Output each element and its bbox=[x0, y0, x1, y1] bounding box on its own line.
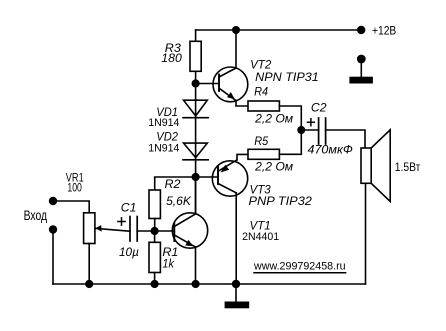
wire: VD2 to node B bbox=[195, 160, 197, 177]
capacitor C1 (10µ) bbox=[130, 217, 137, 242]
svg-text:2N4401: 2N4401 bbox=[242, 231, 279, 243]
svg-text:R2: R2 bbox=[165, 177, 181, 191]
wire: R1 bottom bbox=[154, 273, 156, 285]
resistor R3 bbox=[190, 41, 201, 71]
potentiometer VR1 bbox=[84, 213, 130, 244]
svg-text:PNP TIP32: PNP TIP32 bbox=[249, 194, 313, 208]
capacitor C2 (470мкФ) bbox=[319, 118, 326, 144]
node C: C1 / R2 / R1 / VT1 base bbox=[151, 227, 159, 235]
transistor VT3 (PNP TIP32) bbox=[212, 154, 248, 284]
wire: R3 bottom to node A bbox=[195, 71, 197, 117]
svg-text:1N914: 1N914 bbox=[148, 143, 179, 155]
wire: pot bottom to rail bbox=[88, 244, 90, 285]
wire: bottom ground rail bbox=[53, 283, 366, 285]
wire: R2 bottom to node C bbox=[154, 219, 156, 232]
label + (C1 polarity) bbox=[118, 218, 125, 225]
svg-text:www.299792458.ru: www.299792458.ru bbox=[253, 260, 346, 272]
node: ground junction bbox=[232, 280, 240, 288]
node D: output node R4/R5/C2 bbox=[297, 126, 305, 134]
node B: diodes / R2 / VT3 base / VT1 collector bbox=[192, 173, 200, 181]
svg-text:5,6K: 5,6K bbox=[166, 194, 192, 208]
node A: R3 / VT2 base / diode string bbox=[192, 79, 200, 87]
svg-text:C2: C2 bbox=[311, 101, 327, 115]
ground (bottom) bbox=[225, 284, 250, 308]
wire: VD1 to VD2 bbox=[195, 118, 197, 160]
diode VD1 (1N914) bbox=[183, 100, 208, 118]
diode VD2 (1N914) bbox=[183, 143, 208, 160]
svg-text:2,2 Ом: 2,2 Ом bbox=[254, 160, 294, 174]
wire: R3 top connection bbox=[195, 30, 197, 41]
node: junction top rail / VT2 collector bbox=[232, 26, 240, 34]
speaker LS1 bbox=[361, 130, 390, 202]
wire: node B to R2 top bbox=[155, 177, 196, 190]
resistor R1 bbox=[149, 242, 160, 272]
svg-text:100: 100 bbox=[67, 183, 82, 195]
ground (top right chassis reference) bbox=[349, 55, 373, 84]
wire: input upper to pot top bbox=[53, 201, 89, 213]
svg-text:180: 180 bbox=[161, 51, 182, 65]
svg-text:R4: R4 bbox=[254, 85, 268, 99]
wire: node C to VT1 base bbox=[155, 230, 175, 232]
node: +12V terminal dot bbox=[357, 26, 365, 34]
resistor R4 bbox=[248, 101, 279, 111]
svg-text:470мкФ: 470мкФ bbox=[308, 143, 354, 157]
node: input terminal upper bbox=[49, 197, 57, 205]
wire: speaker bottom to ground rail bbox=[365, 183, 367, 284]
wire: C1 right plate to node C bbox=[137, 230, 154, 232]
svg-text:NPN TIP31: NPN TIP31 bbox=[255, 70, 319, 84]
node: VT1 emitter junction bbox=[192, 280, 200, 288]
wire: node A to VT2 base bbox=[196, 83, 219, 85]
resistor R2 bbox=[149, 190, 160, 219]
node: R1 bottom junction bbox=[151, 280, 159, 288]
node: input terminal lower bbox=[49, 225, 57, 233]
svg-text:1.5Вт: 1.5Вт bbox=[395, 160, 421, 174]
wire: node D to C2 bbox=[301, 129, 318, 131]
wire: +12V top rail bbox=[196, 29, 361, 31]
svg-text:10µ: 10µ bbox=[119, 245, 139, 259]
svg-text:2,2 Ом: 2,2 Ом bbox=[254, 112, 294, 126]
wire: R1 top bbox=[154, 231, 156, 242]
wire: node B to VT3 base bbox=[196, 176, 218, 178]
wire: input lower down to ground rail bbox=[52, 230, 54, 285]
wire: R4 to output node bbox=[279, 106, 301, 130]
transistor VT2 (NPN TIP31) bbox=[213, 30, 248, 106]
svg-text:1N914: 1N914 bbox=[148, 117, 179, 129]
resistor R5 bbox=[248, 149, 279, 159]
transistor VT1 (2N4401) bbox=[172, 177, 207, 284]
wire: underline of site label bbox=[254, 272, 346, 274]
svg-text:C1: C1 bbox=[121, 201, 137, 215]
wire: node B down to VT1 collector bbox=[195, 177, 197, 214]
svg-text:+12В: +12В bbox=[372, 23, 396, 37]
label + (C2 polarity) bbox=[308, 119, 315, 126]
svg-text:1k: 1k bbox=[162, 257, 174, 271]
wire: R5 to output node bbox=[279, 130, 301, 154]
node: pot bottom junction bbox=[85, 280, 93, 288]
svg-text:R5: R5 bbox=[254, 134, 268, 148]
svg-text:Вход: Вход bbox=[24, 208, 47, 223]
wire: C2 to speaker top bbox=[326, 130, 365, 148]
